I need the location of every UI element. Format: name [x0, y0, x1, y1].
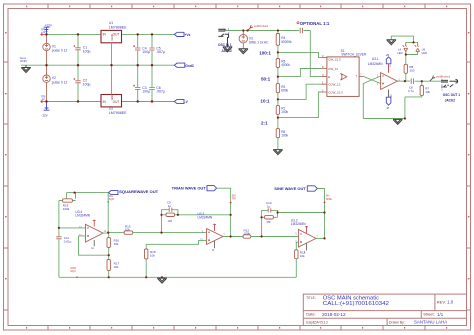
- wire pin10: [146, 240, 206, 249]
- port SINE WAVE OUT: [274, 186, 317, 191]
- switch S1: [322, 49, 367, 96]
- svg-text:2:1: 2:1: [261, 120, 268, 125]
- port TRIAN WAVE OUT: [172, 186, 217, 191]
- port -V: [174, 99, 188, 104]
- resistor R8: [404, 55, 415, 82]
- svg-text:100: 100: [409, 69, 414, 73]
- svg-text:1µ: 1µ: [267, 205, 271, 209]
- wire feedback to triangle out: [178, 214, 231, 216]
- wire trian column: [217, 188, 231, 236]
- svg-text:.067µ: .067µ: [156, 50, 165, 54]
- svg-text:2018-02-12: 2018-02-12: [322, 312, 346, 317]
- wire opamp output: [397, 80, 410, 82]
- svg-text:10k: 10k: [150, 254, 155, 258]
- svg-text:GND: GND: [110, 34, 114, 40]
- port SQUAREWAVE OUT: [108, 190, 159, 194]
- svg-text:SQU: SQU: [109, 197, 115, 201]
- ground feedback: [393, 119, 403, 124]
- resistor R16: [107, 233, 119, 256]
- svg-text:CALL:(+91)7001610342: CALL:(+91)7001610342: [323, 301, 389, 307]
- wire top feedback: [67, 193, 109, 199]
- svg-text:LM324MN: LM324MN: [368, 62, 383, 66]
- svg-text:U3.1: U3.1: [372, 57, 379, 61]
- wire tap 50:1: [278, 69, 322, 77]
- svg-text:4000k: 4000k: [281, 63, 290, 67]
- wire U1 gnd: [111, 43, 113, 65]
- wire pin5 to R11: [296, 242, 298, 250]
- resistor R5: [276, 118, 288, 149]
- junction dots PSU: [45, 33, 153, 103]
- svg-text:LM7808EE: LM7808EE: [109, 25, 127, 29]
- capacitor C4: [133, 34, 150, 65]
- resistor R2: [276, 77, 288, 100]
- wire tap 2:1: [278, 92, 322, 118]
- svg-text:voltProbe1: voltProbe1: [436, 75, 451, 79]
- regulator U2: [101, 94, 127, 115]
- capacitor C1: [74, 34, 91, 65]
- wire sine out column: [317, 189, 324, 239]
- resistor R12: [243, 228, 298, 238]
- text OPTIONAL 1:1: [297, 21, 330, 26]
- resistor R4: [276, 31, 292, 53]
- svg-text:SANTANU LAHA: SANTANU LAHA: [414, 319, 447, 324]
- svg-text:-12v: -12v: [41, 114, 48, 118]
- op-amp U3.3: [198, 212, 226, 252]
- svg-text:100µ: 100µ: [83, 82, 91, 86]
- svg-text:GND: GND: [110, 94, 114, 100]
- wire led to ground: [391, 36, 413, 42]
- svg-text:JACK2: JACK2: [445, 99, 456, 103]
- power port -12v: [41, 96, 49, 118]
- svg-text:OPTIONAL 1:1: OPTIONAL 1:1: [300, 21, 330, 26]
- opamp V+ stub and port: [386, 53, 392, 73]
- svg-text:100:1: 100:1: [259, 51, 271, 56]
- resistor R19: [59, 199, 76, 211]
- svg-text:LED: LED: [422, 51, 427, 55]
- resistor R18: [145, 249, 156, 277]
- connector OSC IN jack: [218, 27, 232, 53]
- op-amp U3.4: [75, 210, 106, 250]
- ground under V3: [239, 49, 249, 54]
- capacitor C2: [74, 65, 91, 101]
- svg-text:E: E: [328, 75, 330, 79]
- resistor R6: [166, 213, 175, 223]
- wire feedback to C9 R6: [162, 210, 178, 233]
- svg-text:-V: -V: [386, 106, 389, 110]
- wire bottom rail -12: [47, 101, 175, 103]
- wire C7 to switch common: [310, 31, 321, 77]
- ground ladder bottom: [273, 150, 283, 155]
- svg-text:TRIAN WAVE OUT: TRIAN WAVE OUT: [172, 186, 207, 190]
- port +Vs: [174, 32, 190, 37]
- svg-text:SINE WAVE OUT: SINE WAVE OUT: [274, 187, 307, 191]
- svg-text:10k: 10k: [425, 90, 430, 94]
- wire squ out column: [107, 193, 109, 233]
- wire U3.3 out: [223, 236, 243, 238]
- wire mid rail gnd: [21, 64, 174, 66]
- svg-text:100k: 100k: [281, 133, 288, 137]
- svg-text:SQU: SQU: [70, 269, 76, 273]
- svg-text:1.0: 1.0: [447, 300, 454, 305]
- net flag +12: [41, 33, 47, 35]
- svg-text:REV:: REV:: [437, 300, 446, 305]
- ground bottom: [157, 278, 167, 283]
- capacitor C9: [167, 201, 172, 212]
- probe voltProbe2: [248, 24, 269, 31]
- net flag TRI: [230, 194, 237, 204]
- op-amp U3.1: [368, 57, 401, 90]
- svg-text:SQUAREWAVE OUT: SQUAREWAVE OUT: [119, 190, 159, 194]
- op-amp U3.2: [291, 218, 319, 254]
- capacitor C6: [149, 65, 165, 101]
- svg-text:U2: U2: [109, 106, 113, 110]
- svg-text:SWITCH_LEVER: SWITCH_LEVER: [341, 53, 366, 57]
- gnd flag left: [20, 56, 31, 73]
- wire pin12 hysteresis: [79, 236, 109, 255]
- svg-text:CCW_12: CCW_12: [328, 83, 341, 87]
- wire top rail +12: [47, 33, 175, 35]
- svg-text:TITLE:: TITLE:: [306, 296, 316, 300]
- svg-text:100µ: 100µ: [142, 50, 150, 54]
- svg-text:TRI: TRI: [232, 197, 236, 201]
- net flag -12: [41, 100, 47, 102]
- wire bottom rail: [59, 276, 296, 278]
- svg-text:10k: 10k: [114, 242, 119, 246]
- ground under jack: [227, 37, 229, 47]
- wire tap 10:1: [278, 84, 322, 99]
- svg-text:100k: 100k: [281, 110, 288, 114]
- svg-text:0.01µ: 0.01µ: [64, 240, 72, 244]
- svg-text:.067µ: .067µ: [156, 90, 165, 94]
- svg-text:T: T: [356, 75, 358, 79]
- svg-text:LM7908EE: LM7908EE: [109, 111, 127, 115]
- svg-text:100k: 100k: [244, 232, 251, 236]
- resistor R11: [295, 250, 306, 277]
- led L4: [397, 42, 418, 54]
- resistor R1: [276, 99, 288, 117]
- wire pin13: [59, 227, 86, 229]
- title block: [303, 294, 466, 325]
- svg-text:U1: U1: [109, 21, 113, 25]
- connector OSC OUT jack: [441, 78, 460, 103]
- svg-text:LM324MN: LM324MN: [291, 222, 306, 226]
- svg-text:OSC OUT 1: OSC OUT 1: [443, 93, 460, 97]
- regulator U1: [101, 21, 127, 43]
- junction dots input: [242, 29, 279, 118]
- svg-text:GND: GND: [20, 59, 28, 63]
- svg-text:LED: LED: [397, 51, 402, 55]
- svg-text:Sheet:: Sheet:: [423, 312, 435, 317]
- svg-text:R6: R6: [168, 219, 172, 223]
- wire left column: [58, 201, 60, 278]
- svg-text:+12: +12: [41, 31, 46, 34]
- svg-text:10k: 10k: [114, 265, 119, 269]
- capacitor C11: [56, 236, 71, 243]
- svg-text:LM324MN: LM324MN: [75, 214, 90, 218]
- svg-text:SINE: SINE: [326, 197, 332, 201]
- resistor R15: [124, 224, 207, 234]
- led U6: [415, 42, 427, 54]
- svg-text:R9: R9: [267, 220, 271, 224]
- svg-text:LM324MN: LM324MN: [198, 216, 213, 220]
- svg-text:Drawn By:: Drawn By:: [389, 319, 405, 324]
- svg-text:4.7µ: 4.7µ: [408, 89, 414, 93]
- capacitor C10: [266, 201, 272, 212]
- capacitor C3: [133, 65, 150, 101]
- probe voltProbe1: [430, 75, 451, 81]
- svg-text:pulse 0 12: pulse 0 12: [52, 49, 68, 53]
- svg-text:1/1: 1/1: [437, 312, 444, 317]
- wire feedback sine: [262, 210, 278, 236]
- capacitor C7: [298, 28, 310, 34]
- svg-text:CW_11: CW_11: [328, 67, 338, 71]
- svg-text:100k: 100k: [63, 207, 70, 211]
- wire input top: [225, 30, 298, 32]
- wire U3.2 out: [316, 237, 325, 239]
- wire U2 gnd: [111, 65, 113, 94]
- svg-text:+V: +V: [386, 53, 390, 57]
- junction dots U3.1: [404, 41, 423, 119]
- svg-text:Date:: Date:: [306, 312, 316, 317]
- capacitor C8: [408, 78, 422, 93]
- voltage source V2: [43, 65, 68, 101]
- resistor R3: [276, 52, 290, 76]
- wire opamp - input feedback: [363, 76, 405, 119]
- ground led: [387, 40, 397, 45]
- voltage source V3: [239, 31, 269, 49]
- svg-text:600k: 600k: [281, 88, 288, 92]
- wire feedback to sine out column: [278, 212, 325, 214]
- svg-text:EasyEDA V5.1.3: EasyEDA V5.1.3: [306, 319, 327, 324]
- resistor R7: [405, 81, 431, 97]
- svg-text:10:1: 10:1: [260, 99, 270, 104]
- svg-text:1µ: 1µ: [168, 204, 172, 208]
- svg-text:CCW_21.5: CCW_21.5: [328, 91, 343, 95]
- resistor R17: [107, 255, 119, 277]
- resistor R9: [265, 216, 274, 224]
- svg-text:C: C: [322, 73, 324, 77]
- net flag GND SQU: [70, 266, 78, 278]
- svg-text:10k: 10k: [300, 254, 305, 258]
- opamp V- stub and port: [386, 89, 393, 110]
- net flag SINE: [324, 194, 333, 204]
- svg-text:100µ: 100µ: [142, 90, 150, 94]
- wire tap 100:1: [278, 52, 322, 57]
- svg-text:pulse 0 12: pulse 0 12: [52, 80, 68, 84]
- net flag SQU: [107, 194, 114, 203]
- junction dots sine: [261, 211, 326, 239]
- capacitor C5: [149, 34, 165, 65]
- svg-text:100µ: 100µ: [83, 49, 91, 53]
- svg-text:voltProbe2: voltProbe2: [254, 24, 269, 28]
- svg-text:10k: 10k: [125, 228, 130, 232]
- voltage source V1: [43, 34, 68, 65]
- svg-text:CW_21.5: CW_21.5: [328, 58, 341, 62]
- port GndC: [174, 63, 194, 68]
- wire output row: [103, 232, 124, 235]
- junction dots square osc: [58, 192, 232, 279]
- wire switch T to opamp + input: [364, 77, 381, 84]
- svg-text:+Vs: +Vs: [185, 33, 191, 37]
- svg-text:50000k: 50000k: [281, 40, 292, 44]
- svg-text:50:1: 50:1: [261, 76, 271, 81]
- wire to out jack: [422, 80, 441, 82]
- power port +12v: [41, 23, 52, 34]
- svg-text:SINE 1 1k AC: SINE 1 1k AC: [249, 40, 269, 44]
- svg-text:GndC: GndC: [185, 64, 194, 68]
